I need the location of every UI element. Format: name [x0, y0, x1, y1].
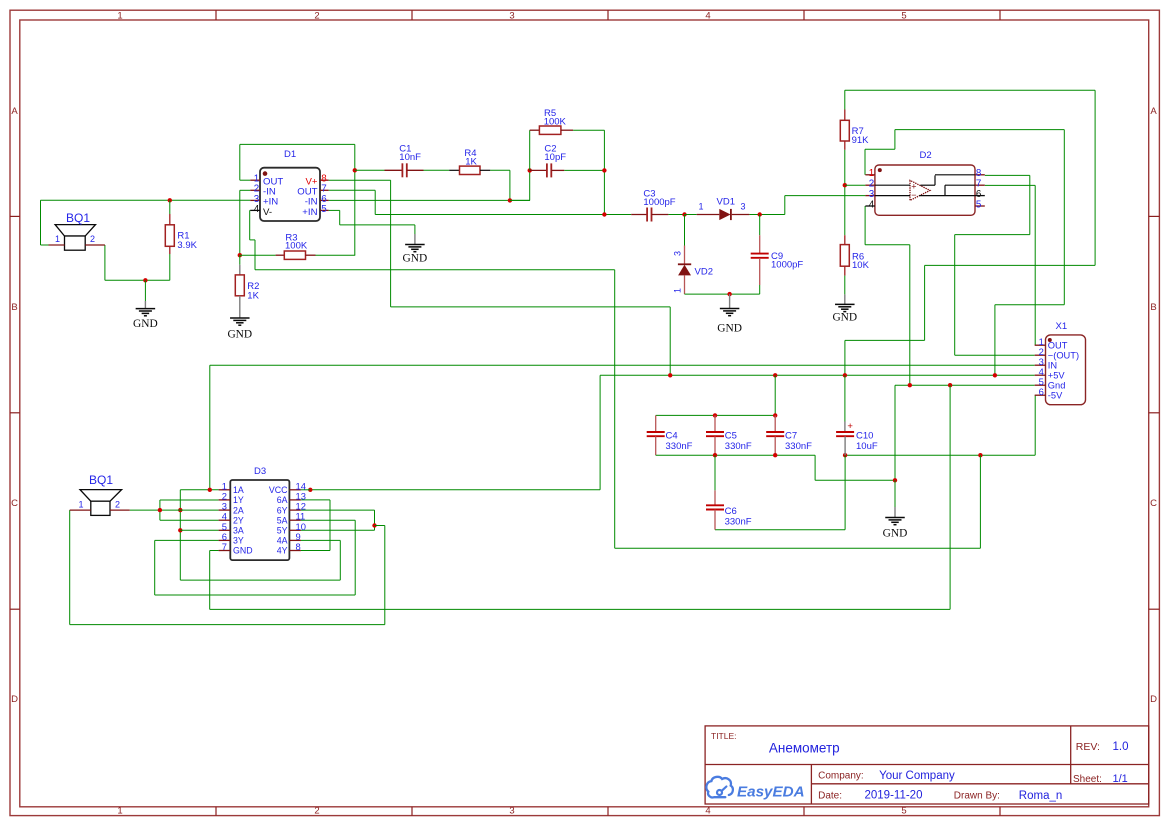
- svg-text:3Y: 3Y: [233, 536, 244, 546]
- node OUT junction: [602, 212, 606, 216]
- svg-text:6: 6: [1039, 386, 1044, 397]
- node R4 junction: [508, 198, 512, 202]
- wire +5V line: [600, 374, 1035, 376]
- op-amp D2: [875, 165, 975, 215]
- svg-text:A: A: [11, 106, 18, 117]
- op-amp D1: [260, 168, 320, 221]
- ground GND4: [729, 294, 731, 308]
- svg-text:1: 1: [55, 234, 60, 244]
- svg-text:VD1: VD1: [717, 197, 735, 208]
- svg-text:7: 7: [222, 541, 227, 552]
- svg-text:3A: 3A: [233, 526, 244, 536]
- svg-text:GND: GND: [227, 329, 252, 341]
- svg-text:GND: GND: [403, 252, 428, 264]
- svg-text:1000pF: 1000pF: [771, 259, 803, 270]
- svg-text:1: 1: [117, 805, 122, 816]
- svg-text:8: 8: [976, 168, 982, 179]
- wire -5V line: [845, 454, 1035, 456]
- svg-text:330nF: 330nF: [725, 441, 752, 452]
- wire D3 pin14 VCC: [301, 489, 310, 491]
- node C2 right junction: [602, 168, 606, 172]
- svg-text:5: 5: [901, 805, 906, 816]
- wire node to C2: [510, 199, 530, 201]
- svg-text:EasyEDA: EasyEDA: [737, 783, 805, 800]
- svg-text:Анемометр: Анемометр: [769, 740, 840, 755]
- svg-text:1K: 1K: [247, 290, 259, 301]
- svg-text:4: 4: [254, 204, 260, 215]
- svg-text:330nF: 330nF: [666, 441, 693, 452]
- svg-text:10nF: 10nF: [399, 152, 421, 163]
- node C9 gnd junction: [727, 292, 731, 296]
- wire D2 pin1 up: [864, 149, 866, 175]
- node C5 top: [713, 413, 717, 417]
- svg-text:GND: GND: [883, 527, 908, 539]
- wire -5V branch down: [979, 455, 981, 548]
- node -5V j2: [978, 453, 982, 457]
- wire R4 to node: [509, 170, 511, 200]
- svg-text:D: D: [11, 694, 18, 705]
- resistor R4: [424, 169, 450, 171]
- node R3 junction: [238, 253, 242, 257]
- wire BQ1.2 down: [104, 245, 106, 280]
- wire D3 pin7 gnd: [210, 550, 219, 552]
- svg-text:3.9K: 3.9K: [177, 240, 197, 251]
- svg-text:B: B: [11, 302, 17, 313]
- svg-text:3: 3: [869, 189, 875, 200]
- svg-text:TITLE:: TITLE:: [711, 731, 737, 741]
- svg-text:4: 4: [869, 199, 875, 210]
- wire cap top bus: [656, 414, 776, 416]
- svg-text:-5V: -5V: [1048, 391, 1063, 401]
- node +5V j2: [773, 373, 777, 377]
- svg-text:VCC: VCC: [269, 485, 288, 495]
- node +5V j1: [668, 373, 672, 377]
- svg-text:D1: D1: [284, 149, 296, 160]
- svg-text:2: 2: [115, 500, 120, 510]
- svg-text:Sheet:: Sheet:: [1073, 774, 1102, 785]
- svg-text:100K: 100K: [285, 241, 308, 252]
- svg-text:5Y: 5Y: [277, 526, 288, 536]
- svg-text:3: 3: [673, 251, 683, 256]
- svg-text:B: B: [1150, 302, 1156, 313]
- wire to R1 bottom: [145, 279, 169, 281]
- ground GND2: [239, 296, 241, 318]
- capacitor C1: [355, 169, 385, 171]
- wire IN line: [210, 364, 1035, 366]
- wire D2 pin2: [845, 184, 866, 186]
- svg-text:4Y: 4Y: [277, 546, 288, 556]
- node +5V j4: [993, 373, 997, 377]
- wire D1 pin6 -IN line: [329, 199, 530, 201]
- svg-text:GND: GND: [133, 318, 158, 330]
- wire BQ1.2 to 2A: [130, 509, 219, 511]
- svg-text:6Y: 6Y: [277, 505, 288, 515]
- svg-text:1: 1: [869, 168, 874, 179]
- node D2 V- junction: [908, 383, 912, 387]
- capacitor C3: [631, 214, 647, 216]
- svg-text:GND: GND: [233, 546, 253, 556]
- wire D2 pin4 V-: [864, 206, 866, 245]
- wire C2 right down: [603, 130, 605, 214]
- node GND junction: [143, 278, 147, 282]
- svg-text:1: 1: [117, 10, 122, 21]
- svg-text:2: 2: [869, 179, 874, 190]
- wire Gnd down to D3: [949, 385, 951, 609]
- capacitor C9: [759, 215, 761, 236]
- node C1 junction: [353, 168, 357, 172]
- svg-text:5: 5: [321, 204, 327, 215]
- node C7 bottom: [773, 453, 777, 457]
- node C5 bottom: [713, 453, 717, 457]
- wire D3 pin5: [180, 529, 218, 531]
- svg-text:3: 3: [509, 10, 514, 21]
- svg-text:5: 5: [901, 10, 906, 21]
- svg-text:2: 2: [314, 10, 319, 21]
- svg-text:2A: 2A: [233, 505, 244, 515]
- node C9 top junction: [758, 212, 762, 216]
- wire D1 pin4 V-: [249, 209, 252, 211]
- svg-text:+5V: +5V: [1048, 371, 1066, 381]
- svg-text:8: 8: [296, 541, 301, 552]
- wire D1 pin7 to C3: [329, 189, 376, 191]
- svg-text:C10: C10: [856, 431, 873, 442]
- node 3A junction: [178, 528, 182, 532]
- svg-text:GND: GND: [832, 312, 857, 324]
- wire R2 top: [239, 255, 241, 265]
- svg-text:10pF: 10pF: [544, 152, 566, 163]
- svg-text:BQ1: BQ1: [66, 211, 90, 225]
- svg-text:−: −: [911, 190, 916, 200]
- wire D3 pin12-pin10: [301, 509, 375, 511]
- wire D2 pin7 to X1 pin1: [985, 184, 1035, 186]
- svg-text:X1: X1: [1056, 321, 1068, 332]
- node C2 left junction: [528, 168, 532, 172]
- svg-text:Company:: Company:: [818, 770, 864, 781]
- svg-text:2: 2: [90, 234, 95, 244]
- svg-text:1K: 1K: [465, 157, 477, 168]
- svg-text:1Y: 1Y: [233, 495, 244, 505]
- svg-text:4: 4: [705, 805, 710, 816]
- svg-text:C7: C7: [785, 431, 797, 442]
- capacitor C5: [714, 415, 716, 432]
- svg-text:Date:: Date:: [818, 791, 842, 802]
- resistor R1: [169, 200, 171, 214]
- wire D3 pin1 bus: [180, 489, 218, 491]
- capacitor C2: [530, 169, 547, 171]
- svg-text:100K: 100K: [544, 117, 567, 128]
- speaker BQ1 (top): [55, 225, 95, 236]
- svg-text:D: D: [1150, 694, 1157, 705]
- resistor R2: [239, 265, 241, 275]
- wire to bottom loop: [375, 525, 385, 527]
- svg-text:330nF: 330nF: [725, 516, 752, 527]
- svg-text:5: 5: [976, 199, 982, 210]
- svg-text:1A: 1A: [233, 485, 244, 495]
- wire D3 pin6 loop: [155, 539, 219, 541]
- node R7 R6 junction: [843, 183, 847, 187]
- wire to D1 pin3: [170, 199, 251, 201]
- ground GND5: [844, 294, 846, 304]
- node -5V j1: [843, 453, 847, 457]
- wire V- down right: [614, 270, 616, 549]
- wire D1 pin1 to C1 node: [240, 179, 251, 181]
- svg-text:1: 1: [698, 202, 703, 212]
- node C7 top: [773, 413, 777, 417]
- wire C10 bottom to C6: [844, 455, 846, 530]
- svg-text:4A: 4A: [277, 536, 288, 546]
- svg-text:A: A: [1150, 106, 1157, 117]
- svg-text:+: +: [847, 421, 853, 432]
- svg-text:IN: IN: [1048, 361, 1057, 371]
- wire loop A: [180, 579, 340, 581]
- svg-text:10K: 10K: [852, 260, 870, 271]
- wire VD1 to D2 pin3: [784, 196, 786, 215]
- capacitor C4: [655, 415, 657, 432]
- svg-text:Your Company: Your Company: [879, 770, 955, 782]
- svg-text:1/1: 1/1: [1113, 773, 1128, 785]
- svg-text:330nF: 330nF: [785, 441, 812, 452]
- connector X1: [1046, 335, 1086, 405]
- wire VD2 bottom: [685, 293, 760, 295]
- svg-text:1: 1: [673, 288, 683, 293]
- svg-text:Gnd: Gnd: [1048, 381, 1066, 391]
- capacitor C10: [844, 375, 846, 421]
- svg-text:C5: C5: [725, 431, 737, 442]
- wire D1 pin2 down: [240, 189, 251, 191]
- wire D3 pin2-pin4: [160, 499, 219, 501]
- resistor R5: [529, 130, 531, 170]
- ground GND3: [414, 234, 416, 245]
- svg-text:V-: V-: [263, 207, 272, 218]
- svg-text:C6: C6: [725, 506, 737, 517]
- svg-text:Drawn By:: Drawn By:: [954, 791, 1000, 802]
- svg-text:D3: D3: [254, 466, 266, 477]
- node pin1 junction: [208, 488, 212, 492]
- wire R7 top rail: [845, 89, 1095, 91]
- wire cap bottom bus: [656, 454, 815, 456]
- svg-text:7: 7: [976, 179, 981, 190]
- capacitor C6: [714, 455, 716, 490]
- diode VD1: [685, 214, 697, 216]
- wire BQ1.1 up-left: [40, 200, 42, 245]
- svg-text:GND: GND: [717, 323, 742, 335]
- svg-text:6: 6: [976, 189, 982, 200]
- svg-text:3: 3: [740, 202, 745, 212]
- svg-text:3: 3: [509, 805, 514, 816]
- svg-text:6A: 6A: [277, 495, 288, 505]
- node VD1 left junction: [682, 212, 686, 216]
- svg-text:D2: D2: [920, 150, 932, 161]
- svg-text:C: C: [1150, 498, 1157, 509]
- svg-text:REV:: REV:: [1076, 741, 1100, 753]
- wire D1 pin8 V+: [329, 179, 391, 181]
- node Gnd junction: [948, 383, 952, 387]
- svg-text:4: 4: [705, 10, 710, 21]
- svg-text:1.0: 1.0: [1113, 741, 1129, 753]
- node 6Y junction: [372, 523, 376, 527]
- wire D2 pin8 to X1 pin2: [985, 174, 1030, 176]
- node R1 top junction: [168, 198, 172, 202]
- svg-text:2Y: 2Y: [233, 515, 244, 525]
- svg-text:5A: 5A: [277, 515, 288, 525]
- speaker BQ1 (bottom): [80, 490, 122, 502]
- ground GND1: [144, 280, 146, 301]
- node VCC junction: [308, 488, 312, 492]
- svg-text:2: 2: [314, 805, 319, 816]
- svg-text:91K: 91K: [852, 135, 870, 146]
- svg-text:10uF: 10uF: [856, 441, 878, 452]
- svg-text:1000pF: 1000pF: [643, 197, 675, 208]
- capacitor C7: [774, 415, 776, 432]
- resistor R7: [844, 90, 846, 109]
- wire Gnd line: [895, 384, 1035, 386]
- resistor R6: [844, 185, 846, 235]
- node 2A junction: [178, 508, 182, 512]
- diode VD2: [684, 215, 686, 246]
- svg-text:OUT: OUT: [1048, 341, 1068, 351]
- svg-text:VD2: VD2: [695, 267, 713, 278]
- svg-text:C4: C4: [666, 431, 678, 442]
- svg-text:−(OUT): −(OUT): [1048, 351, 1079, 361]
- logic chip D3: [230, 480, 289, 560]
- wire D3 pin13-pin8: [301, 499, 330, 501]
- node BQ1 junction: [158, 508, 162, 512]
- svg-text:C: C: [11, 498, 18, 509]
- svg-text:Roma_n: Roma_n: [1019, 790, 1062, 802]
- wire D1 pin5 to ground: [329, 209, 340, 211]
- node +5V j3: [843, 373, 847, 377]
- svg-text:2019-11-20: 2019-11-20: [865, 790, 923, 802]
- node gnd bus junction: [893, 478, 897, 482]
- ground GND6: [894, 480, 896, 507]
- svg-text:BQ1: BQ1: [89, 473, 113, 487]
- svg-text:1: 1: [78, 500, 83, 510]
- resistor R3: [240, 254, 276, 256]
- svg-text:+IN: +IN: [302, 207, 317, 218]
